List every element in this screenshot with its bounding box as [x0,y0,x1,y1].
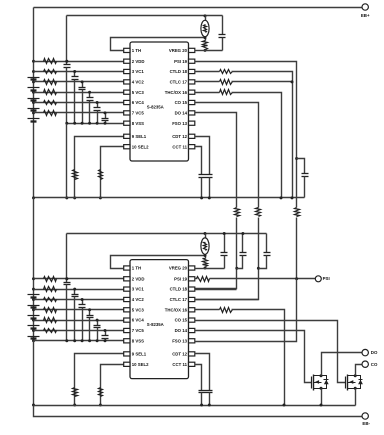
thermistor TH2 [205,234,207,239]
wire TH1 pin wire [111,38,206,51]
wire TH2 pin wire [111,256,206,269]
pin 3 VC1 U1 [124,69,130,73]
wire THC/OX2 line [195,309,220,311]
svg-text:4 VC2: 4 VC2 [132,80,145,85]
battery cell BT2-5 [28,336,40,338]
resistor R-VC11 [44,70,57,74]
node battery tap [32,101,35,104]
pin 13 FSO U2 [189,339,195,343]
wire SEL1-1 pulldown [75,137,124,198]
battery cell BT1-2 [28,87,40,89]
wire VC42 row [34,320,124,322]
pin 7 VC5 U1 [124,111,130,115]
svg-text:2 VDD: 2 VDD [132,59,145,64]
wire drain Q2 to CO terminal [356,365,363,376]
svg-text:8 VSS: 8 VSS [132,338,144,343]
capacitor C-VREG2 [224,234,226,253]
capacitor C2-4 [89,310,91,316]
node CTLD1-rail [291,196,294,199]
svg-text:2 VDD: 2 VDD [132,276,145,281]
pin 1 TH U2 [124,266,130,270]
battery cell BT1-4 [28,108,40,110]
wire DO2 to gate Q1 [195,331,312,383]
node C-CTLD2 rail [241,232,244,235]
node battery tap [32,277,35,280]
wire THC/OX1 line [195,92,220,94]
wire to EB- rail [34,406,363,417]
capacitor C1-4 [89,93,91,98]
capacitor C1-2 [74,72,76,77]
resistor R-SEL2-1 [99,170,103,180]
node source Q2 [354,387,357,390]
svg-text:10 SEL2: 10 SEL2 [132,362,149,367]
wire PSI2 line [195,278,198,280]
resistor R-CTLC1 [220,80,233,85]
svg-text:CO 15: CO 15 [175,100,188,105]
node battery tap [32,319,35,322]
wire CO1 to CTLC2 [195,103,259,208]
svg-text:THC/OX 16: THC/OX 16 [165,90,188,95]
pin 15 CO U1 [189,100,195,104]
wire PSI1 to PSI2 node [296,218,298,279]
pin 16 THC/OX U2 [189,308,195,312]
terminal PSI [315,276,321,282]
battery cell BT1-3 [28,98,40,100]
node thermistor top U2 [204,232,207,235]
pin 7 VC5 U2 [124,328,130,332]
battery cell BT2-4 [28,325,40,327]
node battery tap [32,329,35,332]
op-amp U2 S-8235A IC body [130,260,189,379]
svg-text:S-8235A: S-8235A [147,105,164,110]
wire CDT1 [195,137,210,175]
resistor R-VDD1 [44,59,57,64]
svg-text:8 VSS: 8 VSS [132,121,144,126]
svg-text:6 VC4: 6 VC4 [132,318,145,323]
pin 15 CO U2 [189,318,195,322]
wire VREG1 pin to node [195,50,206,52]
pin 2 VDD U1 [124,59,130,63]
node VDD2 filter junction [65,277,68,280]
wire PSI1 line [195,62,297,208]
wire DO1 to CTLD2 [195,113,237,208]
resistor R-VC32 [44,308,57,313]
wire VC51 row [34,112,124,114]
wire CTLC2 input [195,299,259,301]
pin 11 CCT U2 [189,362,195,366]
wire FSO2 to PSI [195,279,297,342]
resistor R-PSI1 series [295,208,300,217]
capacitor C2-1 [66,279,68,283]
svg-text:5 VC3: 5 VC3 [132,307,145,312]
svg-text:CTLD 18: CTLD 18 [170,69,188,74]
svg-text:4 VC2: 4 VC2 [132,297,145,302]
wire SEL1-2 pulldown [75,354,124,406]
pin 4 VC2 U2 [124,297,130,301]
capacitor C2-2 [74,290,76,295]
wire CTLD2 input [195,289,237,291]
node thermistor top U1 [204,14,207,17]
wire battery bottom to rail2 [33,341,35,406]
svg-text:3 VC1: 3 VC1 [132,69,145,74]
pin 16 THC/OX U1 [189,90,195,94]
battery cell BT1-1 [28,77,40,79]
resistor R-PSI2 [197,277,210,282]
thermistor TH1 [205,16,207,21]
pin 14 DO U2 [189,328,195,332]
wire CO2 to gate Q2 [195,321,346,383]
wire battery stack spine top section [33,8,35,198]
wire VC31 row [34,92,124,94]
node drain Q2 [354,374,357,377]
capacitor C-CTLD2 filter [242,234,244,253]
pin 12 CDT U1 [189,134,195,138]
svg-text:FSO 13: FSO 13 [172,121,187,126]
resistor R-VC52 [44,329,57,333]
capacitor C-PSI1 [297,159,305,174]
capacitor C-CCT2 [199,390,206,392]
svg-text:3 VC1: 3 VC1 [132,287,145,292]
svg-text:CDT 12: CDT 12 [172,134,187,139]
pin 12 CDT U2 [189,352,195,356]
wire VC21 row [34,81,124,83]
node VSS2 battery junction [32,339,35,342]
svg-text:VREG 20: VREG 20 [169,266,188,271]
pin 8 VSS U2 [124,339,130,343]
svg-text:1 TH: 1 TH [132,266,141,271]
pin 8 VSS U1 [124,121,130,125]
pin 19 PSI U2 [189,277,195,281]
svg-text:DO: DO [371,350,378,355]
svg-text:FSO 13: FSO 13 [172,338,187,343]
node VREG2 [204,267,207,270]
pin 14 DO U1 [189,111,195,115]
pin 4 VC2 U1 [124,80,130,84]
wire CCT2 [195,365,202,391]
capacitor C-VREG1 [222,16,224,35]
capacitor C1-1 [66,62,68,65]
pin 6 VC4 U2 [124,318,130,322]
svg-text:6 VC4: 6 VC4 [132,100,145,105]
pin 18 CTLD U1 [189,69,195,73]
op-amp U1 S-8235A IC body [130,42,189,161]
node PSI junction [295,277,298,280]
svg-text:7 VC5: 7 VC5 [132,111,145,116]
wire source Q2 to rail [355,389,357,406]
node battery tap [32,80,35,83]
wire CDT2 [195,354,210,391]
node THC1-rail [280,196,283,199]
capacitor C-CTLC2 filter [266,234,268,253]
node rail2 left [32,404,35,407]
resistor R-CTLD1 [220,70,233,74]
wire thermistor rail U2 [67,233,267,235]
resistor R-TH1 pullup [203,41,208,50]
resistor R-VDD2 [44,277,57,282]
resistor R-VC21 [44,80,57,85]
resistor R-VC41 [44,101,57,105]
resistor R-VC22 [44,298,57,302]
node CO1 filter tap [257,267,260,270]
node battery tap [32,288,35,291]
terminal EB+ [362,4,368,10]
capacitor C-CDT1 [206,174,213,176]
pin 10 SEL2 U1 [124,145,130,149]
wire CTLD1 line [195,71,220,73]
node VREG1 [204,49,207,52]
wire SEL2-2 pulldown [101,365,124,406]
resistor R-TH2 pullup [203,259,208,267]
resistor R-THC1 [220,90,233,95]
node TH2 [204,254,207,257]
node DO1 filter tap [235,267,238,270]
svg-text:THC/OX 16: THC/OX 16 [165,307,188,312]
resistor R-CO1 series [256,208,261,217]
terminal CO [362,361,368,367]
svg-text:S-8235A: S-8235A [147,322,164,327]
pin 2 VDD U2 [124,277,130,281]
wire EB+ top rail [34,7,363,9]
pin 3 VC1 U2 [124,287,130,291]
svg-text:1 TH: 1 TH [132,48,141,53]
svg-text:CDT 12: CDT 12 [172,352,187,357]
svg-text:9 SEL1: 9 SEL1 [132,352,147,357]
node battery tap [32,91,35,94]
pin 17 CTLC U1 [189,80,195,84]
capacitor C2-6 [105,331,107,336]
capacitor C1-5 [97,103,99,108]
wire VDD1 row [34,61,124,63]
capacitor C2-5 [97,321,99,326]
svg-text:10 SEL2: 10 SEL2 [132,144,149,149]
resistor R-VC51 [44,111,57,116]
svg-text:CCT 11: CCT 11 [172,362,187,367]
node VDD1 filter junction [65,60,68,63]
battery cell BT2-2 [28,305,40,307]
transistor Q2 N-channel MOSFET [346,375,363,391]
wire VC12 row [34,289,124,291]
pin 9 SEL1 U2 [124,352,130,356]
wire bottom rail VSS2 [34,405,356,407]
node battery tap [32,70,35,73]
resistor R-THC2 [220,308,233,313]
pin 19 PSI U1 [189,59,195,63]
svg-text:EB-: EB- [362,421,370,426]
pin 20 VREG U2 [189,266,195,270]
svg-text:9 SEL1: 9 SEL1 [132,134,147,139]
node VDD1 tap [32,60,35,63]
pin 5 VC3 U1 [124,90,130,94]
wire VC11 row [34,71,124,73]
pin 18 CTLD U2 [189,287,195,291]
capacitor C-CDT2 [206,390,213,392]
svg-text:VREG 20: VREG 20 [169,48,188,53]
svg-text:CTLC 17: CTLC 17 [170,80,188,85]
node PSI1 cap tap [295,157,298,160]
wire CTLC1 line [195,81,220,83]
battery cell BT2-1 [28,294,40,296]
svg-text:7 VC5: 7 VC5 [132,328,145,333]
pin 1 TH U1 [124,48,130,52]
svg-text:CTLC 17: CTLC 17 [170,297,188,302]
terminal DO [362,349,368,355]
wire VSS1 row [67,123,124,125]
node battery-rail junction [32,196,35,199]
resistor R-DO1 series [235,208,240,217]
battery cell BT2-3 [28,315,40,317]
resistor R-SEL2-2 [99,388,103,397]
node THC2-rail [283,404,286,407]
resistor R-VC12 [44,287,57,292]
wire drain Q1 to DO terminal [322,353,363,376]
pin 6 VC4 U1 [124,100,130,104]
svg-text:PSI: PSI [323,276,330,281]
resistor R-VC31 [44,90,57,95]
wire CCT1 [195,147,202,175]
node battery tap [32,308,35,311]
wire VREG2 pin to node [195,268,206,270]
svg-text:5 VC3: 5 VC3 [132,90,145,95]
resistor R-VC42 [44,318,57,323]
wire source Q1 to rail [321,389,323,406]
wire VC32 row [34,309,124,311]
capacitor C1-6 [105,113,107,119]
svg-text:PSI 19: PSI 19 [174,276,188,281]
node CTLC1-CTLD1 [291,80,294,83]
resistor R-SEL1-1 [73,170,78,180]
capacitor C-CCT1 [199,174,206,176]
wire SEL2-1 pulldown [101,147,124,198]
wire mid rail VSS1 [34,197,305,199]
resistor R-SEL1-2 [73,388,78,397]
node battery tap [32,111,35,114]
capacitor C1-3 [82,82,84,88]
transistor Q1 N-channel MOSFET [312,375,329,391]
node source Q1 [320,387,323,390]
wire battery stack spine bottom section [33,198,35,341]
wire VC22 row [34,299,124,301]
pin 11 CCT U1 [189,145,195,149]
wire thermistor rail U1 [67,15,223,17]
node C-VREG2 rail [223,232,226,235]
terminal EB- [362,413,368,419]
wire VSS2 row [34,340,124,342]
battery cell BT1-5 [28,118,40,120]
node battery tap [32,298,35,301]
svg-text:DO 14: DO 14 [175,328,188,333]
pin 20 VREG U1 [189,48,195,52]
wire VDD2 row [34,278,124,280]
svg-text:PSI 19: PSI 19 [174,59,188,64]
pin 17 CTLC U2 [189,297,195,301]
svg-text:DO 14: DO 14 [175,111,188,116]
wire VC52 row [34,330,124,332]
wire VC41 row [34,102,124,104]
wire VSS1 to rail [66,124,68,198]
node drain Q1 [320,374,323,377]
pin 10 SEL2 U2 [124,362,130,366]
capacitor C2-3 [82,300,84,305]
pin 5 VC3 U2 [124,308,130,312]
pin 13 FSO U1 [189,121,195,125]
svg-text:CO: CO [371,362,378,367]
svg-text:CCT 11: CCT 11 [172,144,187,149]
pin 9 SEL1 U1 [124,134,130,138]
node TH1 [204,36,207,39]
svg-text:CO 15: CO 15 [175,318,188,323]
svg-text:CTLD 18: CTLD 18 [170,287,188,292]
svg-text:EB+: EB+ [361,13,370,18]
